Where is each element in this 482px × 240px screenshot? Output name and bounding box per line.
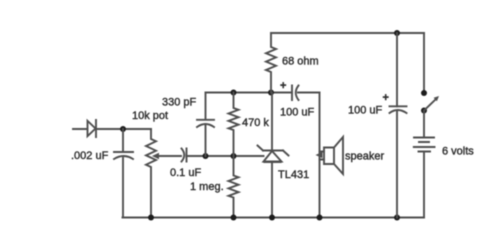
svg-text:1 meg.: 1 meg. (190, 181, 224, 193)
wire diode to node (96, 128, 152, 130)
svg-text:+: + (280, 80, 286, 92)
node pot bottom (148, 215, 154, 221)
node TL431 anode (269, 215, 275, 221)
battery BT1 6V (414, 138, 435, 152)
node 1meg bottom (231, 215, 237, 221)
wire top-mid rail (206, 92, 293, 94)
wire bottom rail (123, 217, 425, 219)
speaker LS1 body (324, 137, 343, 174)
resistor 470k (229, 93, 239, 157)
wire wiper to 0.1uF (160, 155, 181, 157)
svg-text:330 pF: 330 pF (162, 97, 197, 109)
svg-text:TL431: TL431 (278, 169, 309, 181)
capacitor 100uF left (292, 86, 299, 101)
svg-text:0.1 uF: 0.1 uF (170, 167, 201, 179)
node 470k top (231, 90, 237, 96)
wire battery to bottom rail (423, 152, 425, 218)
node diode/cap junction (120, 126, 126, 132)
svg-text:68 ohm: 68 ohm (282, 56, 319, 68)
potentiometer 10k body (146, 129, 156, 218)
svg-text:.002 uF: .002 uF (71, 150, 109, 162)
svg-text:6 volts: 6 volts (442, 146, 474, 158)
diode D1 (88, 120, 97, 137)
capacitor 100uF right upper lead (396, 33, 398, 106)
wire input left (73, 128, 88, 130)
speaker LS1 arrow (316, 152, 323, 158)
wire .002uF branch upper (122, 129, 124, 152)
resistor 68ohm (266, 33, 276, 93)
wire battery branch top (423, 33, 425, 93)
switch S1 arm (424, 100, 436, 111)
switch S1 top contact (421, 90, 427, 96)
svg-text:+: + (383, 92, 389, 104)
capacitor 100uF right (390, 106, 407, 217)
svg-text:100 uF: 100 uF (280, 107, 315, 119)
node 100uF right top (394, 30, 400, 36)
wire top rail (271, 32, 424, 34)
TL431 U1 symbol (258, 146, 289, 162)
capacitor .002uF (114, 152, 133, 159)
node 470k/1meg junction (231, 153, 237, 159)
node speaker bottom (317, 215, 323, 221)
node 330pF bottom (203, 153, 209, 159)
switch S1 bottom contact (421, 108, 427, 114)
svg-text:10k pot: 10k pot (132, 110, 168, 122)
wire 0.1uF to node (187, 155, 264, 157)
capacitor 330pF (197, 93, 214, 157)
svg-text:speaker: speaker (345, 151, 384, 163)
speaker LS1 leads (320, 152, 325, 160)
wire speaker branch vertical (319, 93, 321, 218)
wire .002uF branch lower (122, 158, 124, 218)
wire switch to battery (423, 111, 425, 138)
svg-text:100 uF: 100 uF (348, 105, 383, 117)
TL431 U1 cathode lead (271, 93, 273, 151)
svg-text:470 k: 470 k (242, 117, 269, 129)
capacitor 0.1uF (182, 149, 187, 162)
node 68ohm bottom (268, 90, 274, 96)
TL431 U1 anode lead (271, 162, 273, 218)
resistor 1meg (229, 156, 239, 218)
node 100uF right bottom (394, 215, 400, 221)
potentiometer wiper arrow (158, 155, 162, 157)
wire cap to speaker branch (298, 92, 320, 94)
